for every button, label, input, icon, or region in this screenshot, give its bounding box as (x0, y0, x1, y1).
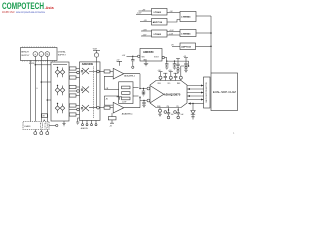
wire power bus (210, 16, 212, 73)
capacitor C10 (165, 61, 168, 69)
op-amp A1 (113, 60, 124, 79)
capacitor C5 (164, 108, 174, 119)
svg-text:LT3063: LT3063 (154, 34, 162, 36)
resistor R7 amp1 input (99, 70, 113, 73)
svg-text:www.compotech-asia.com/service: www.compotech-asia.com/service (16, 11, 46, 14)
svg-text:DIGITAL: DIGITAL (58, 51, 67, 54)
diode D1 (191, 104, 195, 120)
wire supply rail 0 (29, 61, 31, 122)
bus arrow 3 (187, 92, 204, 94)
svg-text:EVAL-SDP-CH1Z: EVAL-SDP-CH1Z (213, 90, 236, 94)
test point TP3 (179, 65, 189, 80)
test point VCM (93, 49, 100, 108)
wire U6 out to U8 pin2 (167, 33, 180, 35)
resistor R10 amp2 supply (108, 113, 116, 127)
resistor R9 amp2 input (99, 106, 113, 109)
ground ADR (144, 61, 148, 66)
capacitor C9 (131, 56, 134, 68)
wire adc in 1 (140, 74, 147, 89)
node rail1 to protection (35, 64, 37, 66)
node rail3 to protection (47, 99, 49, 101)
svg-text:LOADS: LOADS (24, 125, 31, 128)
TVS cluster 1 (55, 67, 65, 77)
ground protection box (62, 121, 65, 126)
resistor R1 (69, 67, 80, 70)
resistor R4 (69, 94, 80, 97)
mux logic pins (82, 120, 98, 125)
capacitor C1 (142, 88, 145, 96)
svg-text:BENCH: BENCH (21, 52, 29, 54)
wire adc in 2 (140, 101, 147, 108)
wire vin U4 pin2 (136, 13, 152, 15)
regulator U9 ADP7182 (180, 43, 196, 50)
node ch1 junction (77, 71, 80, 74)
node ch2 junction (77, 90, 80, 93)
bus arrow 5 (187, 99, 204, 101)
TVS cluster 2 (55, 85, 65, 95)
wire vin U6 pin1 (141, 29, 152, 31)
wire rail2 branch (41, 81, 51, 83)
regulator U7 LTM8045 (180, 12, 196, 22)
eval board EVAL-SDP-H1 (211, 73, 238, 111)
svg-text:LTM8045: LTM8045 (181, 16, 191, 19)
resistor R2 (69, 76, 80, 79)
bench supply terminal block J1 (21, 46, 58, 61)
wire amp1 feedback (104, 76, 113, 89)
capacitor C4 (174, 73, 178, 80)
svg-text:ADP7182: ADP7182 (181, 46, 191, 49)
svg-text:LT3063: LT3063 (154, 12, 162, 14)
wire supply rail 1 (34, 57, 36, 122)
svg-text:.Asia: .Asia (45, 6, 55, 10)
svg-text:ADA4898-1: ADA4898-1 (122, 112, 134, 115)
ground mux (76, 118, 80, 124)
test point TP1 (158, 70, 163, 81)
wire gain box out 2 (133, 95, 139, 97)
reference U10 ADR4550 (138, 49, 165, 62)
svg-text:VOUT: VOUT (154, 57, 159, 59)
regulator U5 ADP7118 (152, 19, 168, 26)
wire ch3 mid (69, 109, 77, 111)
svg-text:A VDD: A VDD (29, 62, 35, 65)
svg-text:1uF: 1uF (171, 114, 174, 116)
svg-text:400-887-1522: 400-887-1522 (2, 10, 15, 14)
node filter 1 (139, 88, 140, 89)
wire vout ADR (165, 58, 189, 67)
capacitor C12 (173, 61, 176, 69)
svg-text:LTM8045: LTM8045 (181, 32, 191, 35)
wire U4 out (167, 11, 180, 13)
svg-text:SUPPLY: SUPPLY (58, 55, 67, 57)
wire supply rail 3 (46, 57, 48, 122)
wire amp2 feedback (104, 96, 113, 105)
wire ch2 mid (69, 90, 77, 92)
input jack block J2 (23, 122, 49, 130)
bus arrow 4 (187, 95, 204, 97)
ADAQ23875 U1 (147, 81, 187, 108)
wire rail1 branch (35, 64, 51, 66)
resistor R5 (69, 104, 80, 107)
wire U7 out (196, 15, 211, 17)
wire vin U5 (140, 20, 152, 22)
svg-text:REF: REF (177, 83, 180, 85)
resistor R6 (69, 113, 80, 116)
regulator U8 LTM8045 (180, 30, 196, 37)
logo COMPOTECH (2, 1, 54, 14)
svg-text:ADAQ23875: ADAQ23875 (164, 92, 181, 96)
gain network box (119, 82, 133, 104)
wire U8 out (196, 32, 212, 34)
connector P4 (204, 77, 211, 108)
svg-text:0: 0 (37, 88, 38, 90)
node amp2 in junction (97, 106, 100, 109)
wire supply rail 2 (40, 57, 42, 122)
capacitor C7 (176, 58, 180, 73)
wire vin U4 pin1 (139, 9, 152, 11)
jack P2 (40, 130, 43, 135)
node rail2 to protection (41, 81, 43, 83)
capacitor C2 (142, 100, 145, 108)
svg-text:-: - (41, 53, 42, 56)
wire rail3 branch (47, 99, 51, 101)
label digital power supply (58, 51, 67, 57)
bus arrow 2 (187, 88, 204, 90)
regulator U6 LT3063 (152, 30, 168, 37)
svg-text:SUPPLY: SUPPLY (21, 55, 30, 57)
svg-text:+1.8: +1.8 (168, 70, 171, 72)
protection box U2 (51, 62, 69, 121)
svg-text:ADP7118: ADP7118 (153, 21, 163, 24)
wire jack block out (49, 124, 58, 126)
wire amp1 out (124, 73, 140, 75)
wire ch1 mid (69, 72, 77, 74)
wire vin ADR (122, 55, 138, 57)
label fb net 2 (104, 96, 118, 100)
svg-text:1uF: 1uF (181, 114, 184, 116)
label fb net 1 (104, 88, 118, 90)
label U9 in (171, 45, 180, 47)
wire clock (188, 102, 204, 104)
pin GND bottom 1 (158, 108, 161, 117)
svg-text:ADA4898-1: ADA4898-1 (124, 75, 136, 78)
wire U6 out to U8 pin1 (167, 30, 180, 32)
resistor R0 series link (42, 114, 48, 121)
node mux out 1 (97, 70, 100, 73)
capacitor C6 (174, 108, 184, 119)
svg-text:160-PIN SDP CONNECTOR: 160-PIN SDP CONNECTOR (206, 82, 208, 103)
wire U9 out (196, 46, 212, 48)
bus arrow 1 (187, 85, 204, 87)
jack P3 (46, 130, 49, 135)
wire amp2 out (124, 107, 140, 109)
node ch3 junction (77, 108, 80, 111)
jack P1 (34, 130, 37, 135)
regulator U4 LT3063 (152, 9, 168, 16)
svg-text:ADR4550: ADR4550 (143, 51, 154, 54)
wire U5 out (167, 20, 180, 23)
svg-text:ADG5209: ADG5209 (82, 63, 94, 66)
op-amp A2 (113, 97, 124, 113)
wire vin U6 pin2 (141, 34, 152, 36)
wire gain box out 1 (133, 87, 139, 89)
svg-text:G: G (46, 52, 48, 56)
svg-text:+VS: +VS (183, 56, 186, 58)
mux ADG5209 U3 (80, 62, 101, 121)
capacitor C11 (183, 56, 188, 72)
capacitor C3 (163, 73, 167, 80)
resistor R3 (69, 85, 80, 88)
TVS cluster 3 (55, 103, 65, 113)
node filter 2 (139, 97, 140, 98)
test point TP2 (168, 70, 173, 81)
